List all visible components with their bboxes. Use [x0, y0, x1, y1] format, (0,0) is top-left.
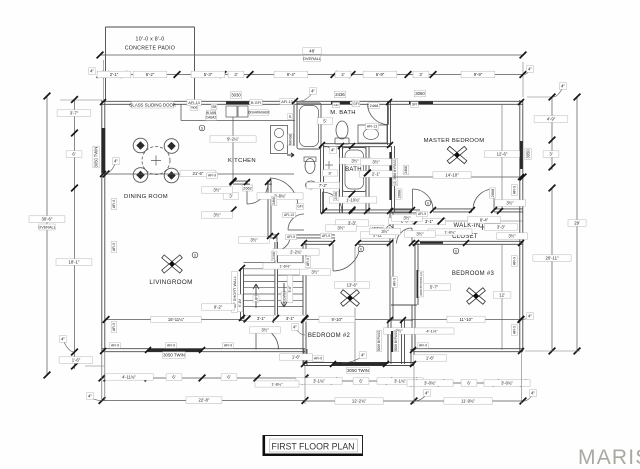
svg-text:2': 2': [341, 72, 344, 77]
svg-text:2668: 2668: [491, 189, 495, 197]
dim: 21-6 dining width: [106, 173, 294, 175]
light cross symbol: [325, 161, 333, 169]
svg-text:4'-9": 4'-9": [547, 117, 556, 122]
door: m.bath entry: [388, 104, 390, 125]
svg-text:3'-1": 3'-1": [425, 219, 434, 224]
dim: closet area dims: [428, 229, 472, 235]
AFI boxes along walls: [111, 199, 117, 210]
wall: m.bath right: [387, 101, 389, 145]
wall: kitchen bottom: [233, 183, 250, 185]
door: landing door at hall wall: [270, 178, 298, 207]
wall: top exterior: [102, 103, 523, 105]
window: glass sliding door (top wall): [131, 102, 174, 109]
dim: 12-6 master vertical: [501, 105, 503, 210]
dim: 9-2 kitchen: [232, 117, 234, 181]
door: kitchen to hall 2662: [246, 183, 248, 204]
svg-text:OVERALL: OVERALL: [38, 225, 56, 229]
kitchen range: [271, 126, 288, 154]
svg-text:3½": 3½": [381, 229, 389, 234]
svg-text:11'-10": 11'-10": [459, 317, 472, 322]
door: bedroom3 entry: [411, 228, 413, 244]
dim: 15-11 living: [106, 319, 240, 321]
svg-text:mod: mod: [191, 106, 198, 110]
svg-text:30'-6": 30'-6": [42, 217, 53, 222]
svg-text:AFI-13: AFI-13: [284, 213, 294, 217]
svg-text:3'-1¾": 3'-1¾": [313, 379, 325, 384]
wall: kitchen / m.bath divider: [293, 101, 295, 146]
svg-text:4": 4": [425, 391, 429, 396]
svg-text:2662: 2662: [243, 185, 252, 190]
svg-text:11'-9¾": 11'-9¾": [461, 399, 475, 404]
svg-text:AFI-9: AFI-9: [513, 257, 517, 265]
svg-text:12': 12': [499, 293, 505, 298]
wall: bedroom2 top: [358, 243, 390, 245]
svg-text:3': 3': [419, 72, 422, 77]
svg-text:KITCHEN: KITCHEN: [228, 158, 256, 164]
powder toilet: [305, 159, 315, 174]
dim: 11-10 bedroom3: [412, 319, 521, 321]
wall: right exterior: [519, 100, 521, 351]
kitchen labels on counter: [187, 100, 201, 106]
svg-text:15'-11¼": 15'-11¼": [168, 317, 185, 322]
svg-text:2068: 2068: [272, 252, 276, 260]
svg-text:GFI: GFI: [412, 103, 418, 107]
svg-text:3½": 3½": [351, 159, 359, 164]
window: 3050 twin dining (left wall): [101, 128, 105, 173]
svg-text:6': 6': [467, 381, 470, 386]
svg-text:3½": 3½": [416, 232, 424, 237]
svg-text:AFI-13: AFI-13: [281, 100, 292, 104]
dim extension verticals bottom: [101, 352, 103, 401]
window: 2436 m.bath: [331, 102, 350, 105]
svg-text:3½": 3½": [250, 238, 258, 243]
svg-text:2'-1": 2'-1": [110, 72, 119, 77]
wall: hall left below kitchen: [267, 182, 269, 237]
wall: bath right: [365, 146, 367, 212]
svg-text:4": 4": [561, 84, 565, 89]
kitchen sink 3030: [226, 106, 237, 117]
patio outline: [106, 26, 195, 28]
svg-text:8': 8': [329, 170, 332, 175]
svg-text:6': 6': [172, 375, 175, 380]
dim: right 20-11: [551, 188, 553, 351]
symbol: smoke detector livingroom: [192, 252, 198, 258]
svg-text:AFI-9: AFI-9: [167, 344, 175, 348]
svg-text:1'-6": 1'-6": [292, 355, 301, 360]
svg-text:2468: 2468: [370, 103, 379, 108]
dim: 48 ft overall line: [100, 54, 523, 56]
svg-text:6'-2": 6'-2": [146, 72, 155, 77]
svg-text:7'-2": 7'-2": [319, 183, 328, 188]
window: 3050 master bedroom: [409, 102, 433, 105]
wall: closet hall vertical: [389, 212, 391, 320]
door: front entry: [255, 327, 257, 350]
wall: bath left: [339, 146, 341, 213]
dining table with chairs: [142, 147, 170, 175]
fan: bedroom3: [467, 288, 486, 305]
svg-text:BEDROOM #3: BEDROOM #3: [452, 271, 495, 277]
svg-text:GB: GB: [212, 105, 218, 109]
svg-text:18'-1": 18'-1": [69, 260, 80, 265]
svg-text:GFI: GFI: [353, 102, 359, 106]
svg-text:LIVINGROOM: LIVINGROOM: [149, 279, 192, 286]
svg-text:AFI-13: AFI-13: [367, 125, 377, 129]
svg-text:OVERALL: OVERALL: [303, 56, 322, 61]
svg-text:S: S: [289, 115, 292, 119]
svg-text:48': 48': [309, 49, 315, 54]
svg-text:AFI-9: AFI-9: [393, 278, 397, 286]
svg-text:5'-7": 5'-7": [430, 285, 439, 290]
dim: top chain: [100, 74, 523, 76]
wall: stairs center divider: [274, 242, 276, 320]
wall: master bedroom bottom: [390, 211, 412, 213]
svg-text:3½": 3½": [337, 226, 345, 231]
svg-text:3½": 3½": [372, 160, 380, 165]
dim: 7-2 hall: [307, 182, 340, 188]
svg-text:2'-2¾": 2'-2¾": [290, 250, 302, 255]
dim: bath small dims: [340, 158, 371, 164]
wall: jog left of bedroom2: [303, 349, 305, 365]
svg-text:RANGE: RANGE: [289, 133, 293, 146]
svg-text:AFI-9: AFI-9: [418, 212, 426, 216]
svg-text:(2) 3068 BYPASS: (2) 3068 BYPASS: [393, 159, 397, 184]
symbol: closet hall: [453, 248, 459, 254]
svg-text:4'-1½": 4'-1½": [426, 328, 438, 333]
door: master bedroom double doors: [412, 189, 414, 210]
svg-text:1'-6½": 1'-6½": [279, 263, 291, 268]
svg-text:AFI-9: AFI-9: [314, 357, 322, 361]
bath tub: [343, 148, 367, 192]
svg-text:4": 4": [528, 67, 532, 72]
dim: left 30-6 overall: [46, 96, 48, 375]
wall: powder/bath left: [320, 145, 322, 213]
svg-text:9'-9": 9'-9": [474, 72, 483, 77]
svg-text:3'-1": 3'-1": [286, 316, 295, 321]
svg-text:21'-6": 21'-6": [193, 171, 204, 176]
stairs up arrow: [253, 284, 259, 308]
wall: bath/hall bottom: [322, 212, 420, 214]
svg-text:20'-11": 20'-11": [545, 256, 558, 261]
stairs down arrow: [281, 283, 287, 307]
dim: 12 bedroom3 vertical: [501, 245, 503, 350]
svg-text:3'-0¾": 3'-0¾": [424, 381, 436, 386]
svg-text:DISHWASHER: DISHWASHER: [248, 111, 270, 115]
m.bath vanity: [358, 125, 387, 143]
window: 3050 master right wall: [520, 141, 523, 169]
svg-text:3½": 3½": [403, 216, 411, 221]
symbol: smoke detector kitchen: [199, 125, 205, 131]
wall: hall top of stairs: [270, 237, 277, 239]
dim: right chain 4-9 / 3: [551, 97, 553, 170]
wall: left exterior: [101, 100, 103, 351]
dim: 9-10 bedroom2: [306, 319, 389, 321]
svg-text:4": 4": [361, 353, 365, 358]
dim: right 29 overall: [576, 97, 578, 351]
m.bath toilet: [336, 121, 348, 139]
svg-text:12'-2¾": 12'-2¾": [352, 399, 367, 404]
svg-text:AFI-9: AFI-9: [306, 258, 310, 266]
dim: hall chain y220: [391, 220, 523, 222]
svg-text:1'-8¾": 1'-8¾": [444, 229, 456, 234]
svg-text:AFI-9: AFI-9: [112, 243, 116, 251]
svg-text:9'-10": 9'-10": [332, 317, 343, 322]
svg-text:4": 4": [61, 337, 65, 342]
svg-text:3050: 3050: [415, 91, 425, 96]
svg-text:M. BATH: M. BATH: [330, 110, 356, 116]
wall: closet strip vertical: [414, 243, 416, 305]
svg-text:6: 6: [427, 201, 429, 205]
svg-text:9'-2": 9'-2": [214, 305, 223, 310]
svg-text:6'-1M: 6'-1M: [238, 299, 242, 307]
svg-text:3½": 3½": [311, 270, 319, 275]
svg-text:4": 4": [114, 159, 118, 164]
svg-text:4'-11¾": 4'-11¾": [122, 375, 136, 380]
wall: bottom exterior left (livingroom): [102, 351, 305, 353]
svg-text:6: 6: [455, 249, 457, 253]
svg-text:CONCRETE PADIO: CONCRETE PADIO: [125, 46, 176, 52]
dim: 13-6 bedroom2 vertical: [354, 247, 356, 290]
svg-text:AFI-9: AFI-9: [112, 323, 116, 331]
svg-text:1'-10¾": 1'-10¾": [346, 198, 360, 203]
wall: closet strip bottom: [391, 304, 417, 306]
svg-text:AFI-9: AFI-9: [513, 186, 517, 194]
svg-text:3'-1¾": 3'-1¾": [394, 379, 406, 384]
svg-text:3': 3': [234, 72, 237, 77]
svg-text:3': 3': [229, 194, 232, 199]
svg-text:3½": 3½": [261, 328, 269, 333]
svg-text:3½": 3½": [508, 234, 516, 239]
kitchen counter edge: [181, 120, 295, 122]
svg-text:3068 BYPASS: 3068 BYPASS: [394, 331, 398, 352]
svg-text:3050 TWIN: 3050 TWIN: [347, 368, 369, 373]
svg-text:29': 29': [574, 221, 580, 226]
wall: bottom exterior right (bedroom3): [413, 351, 523, 353]
fan: livingroom: [162, 255, 183, 273]
svg-text:AFI-13: AFI-13: [188, 101, 199, 105]
symbol: hall detector: [358, 246, 364, 252]
svg-text:36" SHORT WALL: 36" SHORT WALL: [232, 275, 237, 308]
wall: bedroom3 left lower: [411, 305, 413, 350]
svg-text:MASTER BEDROOM: MASTER BEDROOM: [424, 138, 485, 144]
svg-text:3068 BYPASS (2): 3068 BYPASS (2): [419, 272, 423, 296]
36in short wall label: [232, 272, 238, 313]
svg-text:14'-10": 14'-10": [445, 173, 459, 178]
svg-text:3030: 3030: [231, 93, 241, 98]
svg-text:CAB42: CAB42: [206, 116, 217, 120]
door: powder toilet door: [288, 229, 304, 231]
svg-text:4": 4": [331, 148, 335, 153]
door: hall to stairs: [276, 236, 278, 250]
symbol: hall by bath: [425, 200, 431, 206]
dim: bottom row2: [102, 400, 305, 402]
closet bifold dark bar: [389, 152, 391, 200]
door: bedroom2 entry: [332, 244, 334, 271]
dim: 14-10 master: [390, 176, 523, 178]
svg-text:4": 4": [531, 391, 535, 396]
svg-text:3': 3': [549, 152, 552, 157]
wall: bottom exterior bedroom2 bump-out: [304, 365, 414, 367]
wall: jog right of bedroom2: [410, 349, 412, 365]
door size vertical labels: [333, 191, 339, 201]
svg-text:4": 4": [311, 89, 315, 94]
svg-text:UP: UP: [254, 296, 258, 302]
svg-text:9'-4": 9'-4": [287, 72, 296, 77]
title box: FIRST FLOOR PLAN: [263, 436, 363, 456]
m.bath tub: [297, 103, 321, 149]
wall: stairs left: [240, 268, 242, 319]
svg-text:AFI-9: AFI-9: [287, 235, 295, 239]
svg-text:3'-7": 3'-7": [70, 111, 79, 116]
wall: bedroom2 closet left: [387, 320, 389, 364]
fan: master bedroom: [447, 146, 467, 163]
svg-text:5'-6": 5'-6": [288, 285, 292, 293]
svg-text:12'-6": 12'-6": [497, 152, 508, 157]
svg-text:3'-0¾": 3'-0¾": [501, 381, 513, 386]
svg-text:GLASS SLIDING DOOR: GLASS SLIDING DOOR: [129, 102, 176, 107]
svg-text:2468: 2468: [404, 166, 408, 174]
svg-text:WALK-IN: WALK-IN: [454, 223, 481, 229]
svg-text:3050 TWIN: 3050 TWIN: [163, 353, 185, 358]
svg-text:DINING ROOM: DINING ROOM: [124, 194, 168, 200]
svg-text:FIRST FLOOR PLAN: FIRST FLOOR PLAN: [272, 441, 355, 452]
svg-text:AFI-9: AFI-9: [112, 200, 116, 208]
wall: walk-in closet bottom / bedroom3 top: [412, 243, 523, 245]
wall: closet strip right of bath: [391, 146, 393, 212]
window: 3030 kitchen: [226, 102, 249, 105]
wall: hall bottom / stairs bottom: [240, 319, 270, 321]
svg-text:1'-8¼": 1'-8¼": [271, 381, 283, 386]
svg-text:AFI-9: AFI-9: [224, 344, 232, 348]
svg-text:6': 6': [72, 152, 75, 157]
svg-text:10'-0 x 8'-0: 10'-0 x 8'-0: [136, 37, 165, 43]
svg-text:DOWN: DOWN: [282, 291, 286, 303]
dim: kitchen door dims: [223, 193, 239, 199]
bold junction ticks: [100, 99, 106, 105]
svg-text:4": 4": [528, 314, 532, 319]
svg-text:AFI-9: AFI-9: [419, 344, 427, 348]
svg-text:1'-6": 1'-6": [426, 356, 435, 361]
svg-text:GFI: GFI: [334, 103, 339, 107]
svg-text:3068 BYPASS: 3068 BYPASS: [377, 331, 381, 352]
svg-text:8'-4": 8'-4": [480, 218, 489, 223]
wall: m.bath bottom: [323, 146, 391, 148]
svg-text:2'-1": 2'-1": [372, 172, 381, 177]
svg-text:B GFI: B GFI: [251, 101, 261, 105]
svg-text:AFI-9: AFI-9: [111, 344, 119, 348]
window: 3050 twin bedroom2 (bottom wall): [333, 362, 386, 366]
dim: left chain: [74, 100, 76, 370]
dim: bottom of stairs: [245, 315, 278, 321]
window: 3050 twin livingroom (bottom wall): [148, 349, 202, 352]
svg-text:4": 4": [90, 69, 94, 74]
wall: bedroom2 left: [302, 243, 304, 364]
svg-text:4": 4": [88, 394, 92, 399]
svg-text:2668: 2668: [397, 190, 401, 198]
fan: bedroom2: [341, 290, 360, 307]
svg-text:AFI-9: AFI-9: [513, 326, 517, 334]
svg-text:MARIS: MARIS: [578, 446, 640, 469]
door: bath entry: [322, 192, 324, 213]
svg-text:6: 6: [360, 247, 362, 251]
svg-text:1'-6": 1'-6": [72, 358, 81, 363]
kitchen wall oven arrow: [287, 153, 294, 157]
svg-text:GFI: GFI: [297, 205, 303, 209]
dim: bottom chain row1 right: [414, 382, 523, 384]
svg-text:6': 6': [359, 379, 362, 384]
attic access: [370, 225, 384, 232]
svg-text:6'-9": 6'-9": [376, 72, 385, 77]
svg-text:3'-3": 3'-3": [497, 225, 506, 230]
dim: bottom chain row1 bedroom2: [305, 380, 414, 382]
svg-text:BEDROOM #2: BEDROOM #2: [308, 333, 351, 339]
stairs treads: [244, 262, 276, 264]
svg-text:3'-1": 3'-1": [257, 316, 266, 321]
svg-text:4": 4": [293, 325, 297, 330]
svg-text:AFI-9: AFI-9: [322, 234, 330, 238]
svg-text:2468: 2468: [272, 197, 276, 205]
svg-text:3050: 3050: [526, 149, 531, 159]
svg-text:22'-8": 22'-8": [199, 398, 210, 403]
svg-text:3½": 3½": [506, 201, 514, 206]
svg-text:3½": 3½": [213, 213, 221, 218]
powder sink: [306, 181, 317, 189]
svg-text:9'-2¼": 9'-2¼": [227, 137, 239, 142]
dim: bottom chain row1 left: [102, 377, 305, 379]
svg-text:AFI-9: AFI-9: [208, 174, 216, 178]
svg-text:5'-3": 5'-3": [204, 72, 213, 77]
svg-text:3½": 3½": [213, 188, 221, 193]
svg-text:3050 TWIN: 3050 TWIN: [94, 147, 99, 168]
svg-text:5': 5': [323, 119, 326, 124]
dim: hall small dims near stairs: [273, 249, 319, 255]
svg-text:2088: 2088: [334, 192, 338, 200]
svg-text:13'-6": 13'-6": [347, 283, 358, 288]
dim: m.bath 5ft: [317, 118, 333, 124]
svg-text:6': 6': [227, 375, 230, 380]
svg-text:2436: 2436: [335, 92, 345, 97]
